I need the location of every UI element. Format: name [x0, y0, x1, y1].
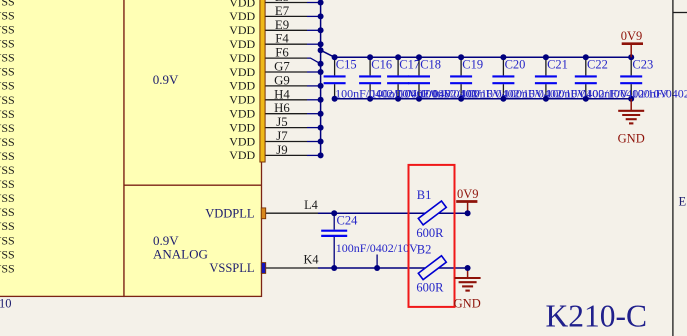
svg-text:C24: C24: [337, 214, 359, 228]
junction on VDD bus y=50.2: [318, 47, 324, 53]
junction on VDD bus y=85.9: [318, 83, 324, 89]
svg-text:J5: J5: [276, 115, 287, 129]
svg-text:VDD: VDD: [229, 51, 255, 65]
pin VDD 2 line: [266, 15, 308, 17]
power port 0V9 (PLL): [456, 187, 478, 213]
svg-text:VSSPLL: VSSPLL: [209, 261, 254, 275]
svg-text:VSS: VSS: [0, 219, 15, 233]
svg-text:L4: L4: [304, 198, 318, 212]
svg-text:100nF/0402/10V: 100nF/0402/10V: [336, 241, 418, 255]
IC section divider line: [124, 184, 262, 186]
capacitor C22: [575, 54, 597, 102]
pin VDD 8 line: [266, 99, 308, 101]
pin VDD 1 line: [266, 2, 308, 4]
capacitor C23: [620, 54, 642, 102]
IC U1 body section: VSS pin bank: [0, 0, 124, 296]
junction on VDD bus y=155.4: [318, 152, 324, 158]
pin VDD 11 line: [266, 141, 308, 143]
wire VSSPLL rail: [318, 267, 468, 269]
svg-text:GND: GND: [618, 132, 645, 146]
svg-text:VSS: VSS: [0, 149, 15, 163]
svg-text:VDD: VDD: [229, 79, 255, 93]
svg-text:VDD: VDD: [229, 148, 255, 162]
svg-text:VSS: VSS: [0, 107, 15, 121]
capacitor C21: [535, 54, 557, 102]
svg-text:C23: C23: [632, 57, 653, 71]
capacitor C19: [450, 54, 472, 102]
svg-text:VSS: VSS: [0, 79, 15, 93]
svg-text:VSS: VSS: [0, 121, 15, 135]
junction on VDD bus y=141.5: [318, 139, 324, 145]
sheet border horizontal stub top right: [673, 12, 687, 14]
svg-text:VSS: VSS: [0, 247, 15, 261]
wire pin to bus: [307, 15, 321, 17]
wire cap bank bottom rail (GND): [335, 98, 632, 100]
svg-text:VDD: VDD: [229, 120, 255, 134]
junction on VDD bus y=127.6: [318, 125, 324, 131]
wire F6 pin jog: [307, 58, 321, 64]
capacitor C24: [321, 210, 347, 271]
svg-text:E7: E7: [275, 4, 290, 18]
pin K4 line: [266, 267, 318, 269]
svg-text:G7: G7: [274, 60, 290, 74]
svg-text:0V9: 0V9: [621, 29, 643, 43]
sheet border vertical line right: [672, 0, 674, 336]
svg-text:VSS: VSS: [0, 9, 15, 23]
svg-text:VSS: VSS: [0, 0, 15, 8]
wire stub on VSSPLL rail: [376, 255, 378, 269]
junction on VDD bus y=30.3: [318, 27, 324, 33]
junction on VDD bus y=63.8: [318, 61, 324, 67]
svg-text:C19: C19: [462, 57, 483, 71]
svg-text:0V9: 0V9: [457, 187, 479, 201]
svg-text:VSS: VSS: [0, 65, 15, 79]
svg-text:VSS: VSS: [0, 177, 15, 191]
svg-text:VDD: VDD: [229, 9, 255, 23]
svg-text:VSS: VSS: [0, 23, 15, 37]
svg-text:C21: C21: [547, 57, 568, 71]
svg-text:H6: H6: [274, 101, 290, 115]
svg-text:VDD: VDD: [229, 93, 255, 107]
pin VDD 12 line: [266, 154, 308, 156]
capacitor C18: [408, 54, 430, 102]
svg-text:VDD: VDD: [229, 37, 255, 51]
svg-text:VSS: VSS: [0, 233, 15, 247]
svg-text:C15: C15: [336, 57, 357, 71]
svg-text:VDD: VDD: [229, 0, 255, 9]
svg-text:GND: GND: [454, 296, 481, 310]
wire pin to bus: [307, 154, 321, 156]
svg-text:E: E: [679, 195, 687, 209]
svg-text:F4: F4: [275, 32, 289, 46]
pin VDD 3 line: [266, 29, 308, 31]
pin VDD 10 line: [266, 127, 308, 129]
pin VDD 9 line: [266, 113, 308, 115]
junction on VDD bus y=2.5: [318, 0, 324, 6]
svg-text:10: 10: [0, 297, 12, 311]
wire pin to bus: [307, 127, 321, 129]
ground GND (PLL): [454, 268, 481, 310]
svg-text:C18: C18: [420, 57, 441, 71]
capacitor C15: [324, 54, 346, 102]
wire pin to bus: [307, 43, 321, 45]
junction on VDD bus y=113.7: [318, 111, 324, 117]
junction GND/VSSPLL: [465, 265, 471, 271]
svg-text:100nF/0402/10V: 100nF/0402/10V: [632, 86, 687, 100]
svg-text:G9: G9: [274, 73, 290, 87]
svg-text:E9: E9: [275, 18, 289, 32]
svg-text:C16: C16: [371, 57, 392, 71]
svg-text:J7: J7: [276, 129, 288, 143]
junction stub/VSSPLL: [374, 265, 380, 271]
red highlight box around B1/B2: [409, 165, 455, 307]
svg-text:H4: H4: [274, 87, 290, 101]
svg-text:C22: C22: [587, 57, 608, 71]
pin VSSPLL colored box: [261, 263, 265, 274]
svg-text:VDD: VDD: [229, 107, 255, 121]
wire diagonal bus to cap rail: [321, 50, 335, 57]
svg-text:C20: C20: [505, 57, 526, 71]
svg-text:VSS: VSS: [0, 51, 15, 65]
svg-text:F6: F6: [275, 46, 289, 60]
junction on VDD bus y=16.4: [318, 13, 324, 19]
wire cap bank top rail (0V9): [335, 56, 632, 58]
wire pin to bus: [307, 29, 321, 31]
svg-text:600R: 600R: [416, 226, 444, 240]
svg-text:ANALOG: ANALOG: [153, 246, 208, 261]
orange pin bank bar: [260, 0, 265, 162]
capacitor C17: [387, 54, 409, 102]
wire pin to bus: [307, 141, 321, 143]
pin VDD 7 line: [266, 85, 308, 87]
svg-text:VDD: VDD: [229, 65, 255, 79]
wire pin to bus: [307, 71, 321, 73]
pin L4 line: [266, 212, 318, 214]
pin VDD 5 line: [266, 57, 308, 59]
svg-text:VSS: VSS: [0, 37, 15, 51]
ferrite bead B2: [418, 256, 446, 280]
capacitor C16: [359, 54, 381, 102]
wire VDDPLL rail: [318, 212, 468, 214]
svg-text:VSS: VSS: [0, 205, 15, 219]
junction on VDD bus y=99.8: [318, 97, 324, 103]
svg-text:VDDPLL: VDDPLL: [205, 206, 254, 220]
pin VDD 4 line: [266, 43, 308, 45]
junction on VDD bus y=72.0: [318, 69, 324, 75]
svg-text:VSS: VSS: [0, 261, 15, 275]
pin VDDPLL colored box: [261, 208, 265, 219]
junction on VDD bus y=44.2: [318, 41, 324, 47]
power port 0V9 (cap bank): [621, 29, 643, 58]
svg-text:VSS: VSS: [0, 93, 15, 107]
svg-text:VDD: VDD: [229, 134, 255, 148]
svg-text:B2: B2: [417, 243, 432, 257]
svg-text:K210-C: K210-C: [546, 299, 648, 334]
svg-text:VSS: VSS: [0, 135, 15, 149]
wire pin to bus: [307, 2, 321, 4]
junction 0V9/VDDPLL: [465, 210, 471, 216]
svg-text:J9: J9: [276, 143, 287, 157]
svg-text:VSS: VSS: [0, 163, 15, 177]
wire pin to bus: [307, 99, 321, 101]
capacitor C20: [492, 54, 514, 102]
wire pin to bus: [307, 113, 321, 115]
svg-text:K4: K4: [303, 253, 318, 267]
ferrite bead B1: [418, 201, 446, 225]
svg-text:B1: B1: [417, 188, 432, 202]
svg-text:600R: 600R: [416, 280, 444, 294]
pin VDD 6 line: [266, 71, 308, 73]
IC U1 body section: VDD core / analog: [124, 0, 262, 296]
svg-text:VDD: VDD: [229, 23, 255, 37]
wire pin to bus: [307, 85, 321, 87]
ground GND (cap bank): [618, 99, 645, 146]
wire VDD vertical bus: [320, 3, 322, 156]
svg-text:0.9V: 0.9V: [153, 72, 179, 87]
svg-text:VSS: VSS: [0, 191, 15, 205]
